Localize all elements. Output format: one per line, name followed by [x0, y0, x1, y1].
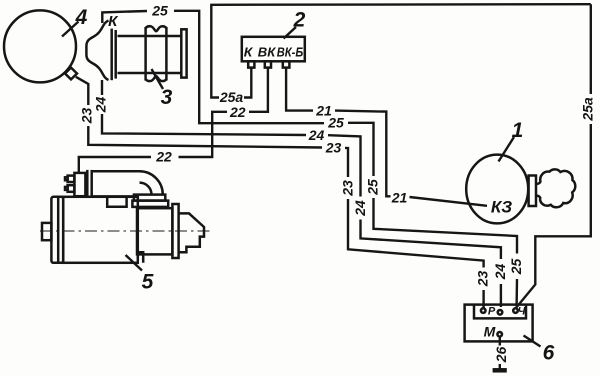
svg-text:3: 3: [161, 86, 173, 109]
ignition switch 1 (circle KZ): [466, 155, 528, 224]
solenoid elbow: [140, 171, 163, 194]
distributor 4 (circle): [4, 10, 76, 82]
svg-text:23: 23: [325, 140, 342, 156]
elbow flange lower: [132, 201, 168, 207]
coil body lines: [118, 35, 182, 38]
svg-text:22: 22: [229, 104, 246, 120]
svg-text:К: К: [108, 13, 119, 30]
coil bobbin: [144, 27, 147, 81]
label 2: [284, 9, 306, 39]
center line: [40, 230, 210, 232]
block 2 (K VK VK-B): [242, 37, 305, 68]
starter body: [63, 197, 138, 263]
bendix profile: [179, 213, 204, 252]
starter left cap: [51, 197, 63, 263]
elbow flange upper: [134, 195, 165, 201]
svg-text:4: 4: [75, 6, 88, 29]
svg-text:25а: 25а: [580, 97, 596, 122]
drive housing: [137, 208, 172, 254]
wire 23: distributor terminal to relay 6: [76, 77, 484, 308]
wire 25: coil K terminal to relay 6 / switch junction: [102, 11, 517, 307]
label 6: [524, 336, 555, 365]
svg-text:23: 23: [475, 271, 491, 288]
solenoid terminals: [68, 176, 75, 182]
wire 26: relay M terminal to ground: [499, 337, 501, 369]
svg-text:23: 23: [340, 180, 356, 197]
starter bottom right step: [138, 252, 143, 262]
label 1: [499, 119, 524, 162]
svg-text:23: 23: [78, 108, 94, 125]
solenoid body: [92, 170, 140, 173]
svg-text:Р: Р: [488, 306, 496, 318]
ignition coil 3: [86, 21, 186, 82]
svg-text:ВК-Б: ВК-Б: [277, 45, 304, 60]
svg-text:25а: 25а: [219, 89, 244, 105]
coil flange bars: [110, 29, 113, 81]
coil bell: [86, 21, 108, 81]
svg-text:6: 6: [543, 342, 555, 365]
svg-text:26: 26: [493, 347, 509, 364]
svg-text:ВК: ВК: [258, 45, 277, 60]
svg-text:25: 25: [365, 179, 381, 196]
svg-text:21: 21: [315, 102, 332, 118]
label 3: [152, 69, 173, 109]
solenoid cap: [74, 173, 85, 196]
svg-text:24: 24: [308, 127, 325, 143]
starter relay 6: [465, 305, 533, 342]
svg-text:25: 25: [151, 3, 168, 19]
svg-text:25: 25: [508, 259, 524, 276]
svg-text:Ч: Ч: [518, 306, 526, 318]
svg-text:22: 22: [155, 149, 172, 165]
wire 21: terminal VK-B of block 2 to ignition switch 1: [286, 68, 487, 206]
svg-text:24: 24: [92, 97, 108, 114]
ground: [493, 368, 507, 373]
wire 25a: terminal K of block 2 up over the top and down right side to relay 6: [211, 4, 591, 307]
distributor terminal diamond: [65, 68, 77, 80]
starter shaft end: [42, 223, 51, 240]
svg-text:К: К: [244, 45, 254, 60]
svg-text:24: 24: [352, 200, 368, 217]
label 5: [126, 255, 154, 294]
svg-text:КЗ: КЗ: [491, 198, 512, 217]
coil right flange: [181, 29, 186, 77]
mounting flange: [172, 204, 178, 258]
starter top notch: [107, 197, 126, 207]
solenoid flange lines: [86, 170, 89, 198]
starter 5: [40, 170, 210, 263]
svg-text:5: 5: [142, 271, 154, 294]
svg-text:21: 21: [391, 189, 408, 205]
wire 24: coil low terminal to relay 6: [102, 80, 501, 307]
key head: [536, 169, 575, 207]
switch bar: [529, 176, 536, 207]
svg-text:24: 24: [492, 264, 508, 281]
wire 22: terminal VK of block 2 to starter solenoid: [79, 68, 268, 173]
label 4: [62, 6, 88, 37]
svg-text:М: М: [484, 324, 496, 340]
